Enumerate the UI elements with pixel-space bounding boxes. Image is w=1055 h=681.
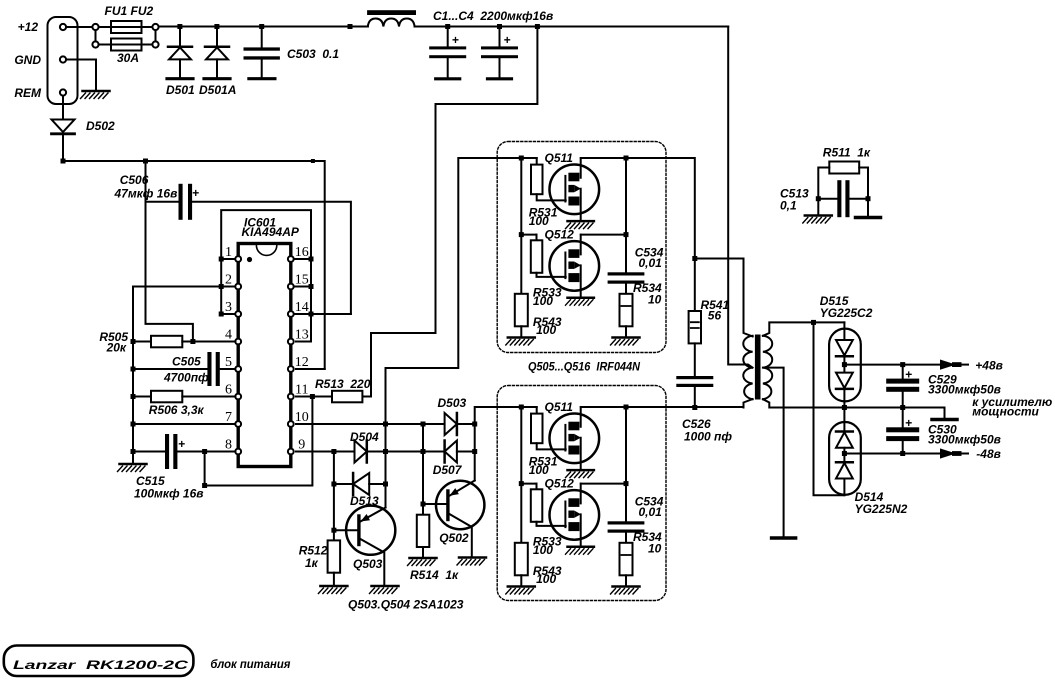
svg-text:D504: D504 (350, 430, 379, 444)
IC pin 2 (235, 284, 241, 290)
resistor R543 (upper) (515, 294, 528, 327)
wire gate column upper (520, 158, 522, 294)
IC pin 12 (288, 366, 294, 372)
dual diode D515 (829, 329, 861, 402)
resistor R533 (lower) (536, 484, 538, 490)
svg-text:Q503: Q503 (353, 557, 383, 571)
resistor R512 (328, 540, 341, 572)
svg-text:12: 12 (295, 355, 309, 370)
wire R511 left leg (818, 168, 829, 214)
svg-text:C505: C505 (172, 355, 201, 369)
svg-text:+: + (905, 367, 912, 381)
wire +48V rail (844, 364, 940, 366)
title box Lanzar RK1200-2C (4, 646, 194, 677)
svg-text:3: 3 (225, 300, 232, 315)
IC pin 5 (235, 366, 241, 372)
svg-text:Lanzar RK1200-2C: Lanzar RK1200-2C (13, 658, 189, 672)
wire REM run to pin 12 (63, 161, 325, 369)
IC pin 14 (288, 311, 294, 317)
node: rail junctions (177, 24, 182, 29)
svg-text:2: 2 (225, 272, 232, 287)
wire secondary-top bypass to D514 bottom (814, 322, 845, 495)
fuse terminal circles left (92, 24, 98, 30)
svg-text:+12: +12 (18, 20, 39, 34)
pin GND (60, 56, 66, 62)
dashed outline MOSFET bank lower (497, 386, 666, 601)
svg-text:11: 11 (295, 382, 308, 397)
svg-text:10: 10 (648, 542, 662, 556)
transformer T1 secondary winding (763, 336, 772, 399)
svg-text:47мкф 16в: 47мкф 16в (114, 187, 178, 201)
wire D513 row (333, 452, 335, 541)
IC pin 13 (288, 339, 294, 345)
pin REM (60, 89, 66, 95)
svg-text:D501A: D501A (199, 83, 236, 97)
transistor Q512 (lower) (550, 484, 600, 555)
capacitor C530 (902, 408, 904, 428)
svg-text:+: + (178, 437, 185, 451)
resistor R513 (332, 391, 362, 403)
wire drain rail upper (581, 157, 664, 159)
diode D507 (443, 441, 446, 463)
wire pin10 row junctions (383, 422, 388, 427)
resistor R531 (upper) (536, 158, 538, 165)
svg-text:100: 100 (536, 572, 556, 586)
diode D501 (179, 29, 181, 47)
svg-text:D503: D503 (438, 396, 467, 410)
IC pin 16 (288, 256, 294, 262)
svg-text:мощности: мощности (972, 405, 1039, 419)
wire left bus (132, 287, 134, 463)
svg-text:D502: D502 (86, 119, 115, 133)
node gate bus lower (519, 405, 524, 410)
svg-text:5: 5 (225, 355, 232, 370)
svg-text:100: 100 (533, 294, 553, 308)
capacitor C534 (upper) (625, 235, 627, 273)
transformer T1 core (755, 335, 761, 400)
svg-text:YG225N2: YG225N2 (855, 502, 908, 516)
wire R511 right leg (859, 168, 868, 217)
capacitor C529 (902, 365, 904, 379)
transistor Q511 (lower) (550, 407, 600, 478)
svg-text:R506 3,3к: R506 3,3к (149, 403, 205, 417)
diode D501A (216, 29, 218, 47)
transistor Q503 (346, 506, 395, 555)
svg-text:100: 100 (529, 214, 549, 228)
svg-text:100: 100 (536, 323, 556, 337)
svg-text:Q512: Q512 (545, 228, 575, 242)
diode D502 (62, 96, 64, 120)
svg-text:D507: D507 (433, 463, 463, 477)
wire pin7 to bus (133, 423, 235, 425)
svg-text:4700пф: 4700пф (163, 371, 209, 385)
arrow +48v (940, 360, 956, 370)
svg-text:56: 56 (708, 309, 722, 323)
IC601 pin1 dot (247, 257, 252, 262)
wire primary top feed (695, 259, 753, 337)
wire secondary top lead (763, 322, 845, 335)
IC pin 8 (235, 449, 241, 455)
wire upper drain rail to transformer primary top (664, 158, 695, 310)
row B wire lower (521, 483, 626, 485)
IC601 notch (256, 245, 276, 255)
svg-text:1000 пф: 1000 пф (684, 430, 732, 444)
capacitor C506 (146, 161, 193, 342)
resistor R531 (lower) (536, 407, 538, 414)
svg-text:GND: GND (14, 53, 41, 67)
wire primary bottom lead (744, 399, 753, 408)
svg-text:3300мкф50в: 3300мкф50в (928, 433, 1001, 447)
wire -48V rail (844, 453, 940, 455)
wire D507 column to Q502/R514 (422, 424, 424, 515)
svg-text:7: 7 (225, 410, 232, 425)
IC pin 9 (288, 449, 294, 455)
wire drain/C534 column upper (625, 158, 627, 235)
svg-text:9: 9 (298, 437, 305, 452)
arrow -48v (940, 448, 956, 458)
ground left bus (120, 463, 147, 466)
dual diode D514 (829, 422, 861, 495)
svg-text:C503 0.1: C503 0.1 (287, 47, 339, 61)
svg-text:1: 1 (225, 245, 232, 260)
svg-text:Q512: Q512 (545, 477, 575, 491)
svg-text:+: + (192, 186, 199, 200)
svg-text:0,1: 0,1 (780, 199, 797, 213)
pin +12 (60, 24, 66, 30)
svg-text:10: 10 (648, 293, 662, 307)
wire strap pins 1-3-16-15-14-13 loop (221, 210, 311, 341)
fuse FU1 (111, 21, 142, 33)
svg-text:+: + (452, 33, 459, 47)
svg-text:+48в: +48в (975, 358, 1003, 372)
svg-text:Q511: Q511 (545, 400, 574, 414)
wire drain/C534 column lower (625, 407, 627, 484)
fuse terminal circles right (152, 24, 158, 30)
resistor R511 (829, 162, 859, 174)
capacitor C534 (lower) (625, 484, 627, 522)
resistor R543 (lower) (515, 543, 528, 576)
svg-text:30A: 30A (117, 51, 139, 65)
wire pin10-row riser to upper gate bus (386, 158, 537, 424)
svg-text:0,01: 0,01 (639, 505, 663, 519)
wire secondary center tap to ground (763, 368, 784, 537)
transformer T1 primary winding (743, 336, 752, 399)
wire drain rail lower (581, 406, 744, 408)
svg-text:10: 10 (295, 410, 309, 425)
svg-text:Q511: Q511 (545, 151, 574, 165)
svg-text:FU1 FU2: FU1 FU2 (105, 4, 154, 18)
svg-text:13: 13 (295, 327, 309, 342)
row B wire upper (521, 234, 626, 236)
wire +12 rail down to R513 (pin11 pullup) (362, 27, 537, 397)
svg-text:15: 15 (295, 272, 309, 287)
svg-text:R514 1к: R514 1к (410, 568, 459, 582)
connector J1 (+12/GND/REM) (48, 17, 78, 104)
wire gate column lower (520, 407, 522, 543)
transistor Q502 (436, 481, 484, 529)
svg-text:20к: 20к (106, 341, 127, 355)
pin 16 lead (289, 258, 311, 260)
resistor R505 (151, 336, 182, 348)
svg-text:100мкф 16в: 100мкф 16в (134, 487, 204, 501)
svg-text:100: 100 (529, 463, 549, 477)
fuse FU2 (111, 39, 142, 51)
svg-text:C506: C506 (120, 173, 149, 187)
ground at GND pin (66, 60, 96, 90)
resistor R534 (upper) (620, 294, 633, 327)
pin 3 lead (221, 313, 240, 315)
svg-text:16: 16 (295, 245, 309, 260)
inductor L1 core bar (367, 10, 416, 15)
svg-text:4: 4 (225, 327, 232, 342)
wire D504/D513 column (385, 424, 387, 508)
svg-text:+: + (504, 33, 511, 47)
svg-text:1к: 1к (305, 556, 319, 570)
capacitor C505 (133, 368, 207, 370)
svg-text:8: 8 (225, 437, 232, 452)
pin 15 lead (289, 286, 311, 288)
resistor R506 (151, 391, 182, 403)
svg-text:блок питания: блок питания (210, 657, 290, 671)
diode D504 (355, 441, 367, 463)
svg-text:-48в: -48в (976, 447, 1001, 461)
diode D513 (352, 473, 355, 495)
svg-text:100: 100 (533, 543, 553, 557)
wire secondary bottom lead / 0V rail (763, 399, 945, 417)
wire: main +12 rail (159, 26, 368, 28)
inductor L1 winding (368, 19, 415, 27)
node gate bus upper (519, 156, 524, 161)
transistor Q512 (upper) (550, 235, 600, 306)
resistor R533 (upper) (536, 235, 538, 241)
wire pin9/D504 row (331, 449, 336, 454)
wire Q502 emitter / D503 column to lower gate bus (475, 407, 537, 481)
svg-text:KIA494AP: KIA494AP (242, 225, 300, 239)
IC pin 7 (235, 421, 241, 427)
IC pin 6 (235, 394, 241, 400)
resistor R534 (lower) (620, 543, 633, 576)
capacitor C515 (133, 451, 165, 453)
resistor R541 (689, 311, 701, 343)
svg-text:+: + (905, 416, 912, 430)
pin 1 lead (221, 258, 240, 260)
pin 9 lead (296, 451, 355, 453)
svg-text:14: 14 (295, 300, 309, 315)
pin 11 lead (296, 396, 332, 398)
diode D503 (445, 413, 457, 435)
IC pin 11 (288, 394, 294, 400)
svg-text:D501: D501 (166, 83, 195, 97)
svg-text:0,01: 0,01 (639, 256, 663, 270)
svg-text:YG225C2: YG225C2 (820, 306, 873, 320)
capacitor C1...C4 electrolytic (447, 29, 449, 46)
IC pin 3 (235, 311, 241, 317)
capacitor C1...C4 electrolytic (499, 29, 501, 46)
IC pin 1 (235, 256, 241, 262)
svg-text:Q502: Q502 (439, 531, 469, 545)
svg-text:REM: REM (14, 86, 42, 100)
wire pin8 to pin11 link (205, 397, 313, 486)
svg-text:6: 6 (225, 382, 232, 397)
IC pin 4 (235, 339, 241, 345)
op-amp IC601 KIA494AP body (238, 244, 291, 467)
resistor R514 (417, 515, 430, 547)
transistor Q511 (upper) (550, 158, 600, 229)
svg-text:R513 220: R513 220 (315, 377, 371, 391)
capacitor C513 (818, 198, 837, 200)
pin 12 lead (296, 368, 325, 370)
svg-text:Q503.Q504 2SA1023: Q503.Q504 2SA1023 (348, 598, 464, 612)
pin 14 lead to C506 (289, 313, 351, 315)
pin 2 lead to left bus (133, 286, 240, 288)
IC pin 10 (288, 421, 294, 427)
wire +12 rail to primary center tap (728, 27, 752, 368)
dashed outline MOSFET bank upper (497, 142, 666, 353)
capacitor C503 (261, 29, 263, 47)
svg-text:C1...C4 2200мкф16в: C1...C4 2200мкф16в (433, 9, 553, 23)
svg-text:R511 1к: R511 1к (823, 146, 871, 160)
svg-text:Q505...Q516 IRF044N: Q505...Q516 IRF044N (528, 360, 640, 374)
capacitor C526 (694, 343, 696, 376)
wire +12 pin to fuse terminals (66, 26, 92, 28)
pin 10 lead (296, 423, 445, 425)
IC pin 15 (288, 284, 294, 290)
